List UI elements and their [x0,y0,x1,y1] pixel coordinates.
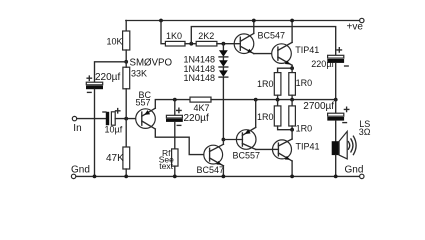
svg-text:Gnd: Gnd [71,165,90,176]
resistor 47K [106,119,130,177]
svg-text:BC557: BC557 [233,150,261,160]
wire SM0VPO node to 220uf [95,62,127,82]
node bias top [222,42,226,46]
resistor 4K7 [190,97,336,113]
svg-text:220µf: 220µf [311,59,334,69]
resistor 1K0 [161,21,196,47]
svg-text:In: In [73,123,81,134]
capacitor C 2700uf output [303,100,349,123]
svg-text:SMØVPO: SMØVPO [130,58,173,69]
wire 220uf bootstrap to output [335,63,337,100]
resistor 33K [123,62,147,119]
svg-text:4K7: 4K7 [194,103,210,113]
svg-text:BC547: BC547 [197,165,225,175]
wire Q6 collector up [291,130,293,139]
resistor 2K2 [196,31,234,46]
capacitor C 10uf input [103,109,123,135]
wire speaker to ground [335,155,337,176]
capacitor C 220uf bootstrap [311,48,348,69]
node output cap junction [334,98,338,102]
node bias bottom [222,138,226,142]
svg-text:10µf: 10µf [105,124,123,134]
svg-text:2K2: 2K2 [198,31,214,41]
capacitor C 220uf feedback [166,100,209,126]
transistor Q1 BC557 input PNP [136,90,156,129]
node 1K0 rail tap [159,19,163,23]
node SM0VPO [124,58,172,69]
node 220uf ground [93,175,97,179]
svg-text:1R0: 1R0 [257,79,274,89]
resistor 1R0 top right [289,68,312,99]
terminal Gnd right [345,164,364,178]
terminal Gnd left [71,165,90,179]
wire Q2 emitter to Q3 base [254,53,278,55]
wire Q2 collector to rail [253,21,255,34]
svg-text:1R0: 1R0 [296,123,313,133]
svg-text:33K: 33K [131,69,147,79]
wire 220uf to ground [94,89,96,176]
terminal +ve [347,18,364,32]
wire 2700uf to speaker [335,121,337,142]
svg-text:557: 557 [136,97,151,107]
diode D2 1N4148 [184,57,228,74]
svg-text:Gnd: Gnd [345,164,364,175]
node output right 1R0 [290,98,294,102]
wire Q6 emitter to ground [291,161,293,176]
svg-text:1R0: 1R0 [257,112,274,122]
resistor 1R0 bottom left [257,100,292,130]
node 47K ground [124,175,128,179]
diode D1 1N4148 [184,44,228,65]
speaker LS [332,119,371,159]
wire Q5 collector up [222,140,224,145]
wire Q3 collector to rail [291,21,293,43]
node base of first BC557 [124,117,128,121]
resistor 10K [107,21,130,62]
wire Q1 emitter to feedback rail [155,100,190,109]
wire bootstrap [191,27,335,56]
wire Q5 emitter to ground [222,166,224,177]
node BC557 emitter on output rail [254,98,258,102]
svg-text:10K: 10K [107,37,123,47]
capacitor C 220uf bias decoupling [86,72,120,92]
svg-text:1N4148: 1N4148 [184,73,216,83]
wire Q4 emitter to output rail [255,100,257,128]
node Q5 emitter ground [222,175,226,179]
svg-text:1R0: 1R0 [296,78,313,88]
svg-text:BC547: BC547 [258,30,286,40]
wire Q3 emitter node [278,65,293,68]
node output left 1R0 [276,98,280,102]
wire bias column down [222,77,224,139]
wire Q4 collector to Q6 base [256,148,273,150]
resistor 1R0 bottom right [289,100,312,134]
svg-text:TIP41: TIP41 [295,45,319,55]
wire Q1 collector down [155,129,209,155]
diode D3 1N4148 [184,67,228,83]
wire top +ve rail [126,20,362,22]
wire 10uf to base node [115,118,142,120]
transistor Q6 TIP41 lower output [272,139,319,161]
node 1K0 2K2 junction [189,42,193,46]
resistor 1R0 top left [257,68,281,99]
node Q6 emitter ground [290,175,294,179]
node feedback tap [173,98,177,102]
transistor Q4 BC557 lower driver [223,127,260,160]
svg-text:+ve: +ve [347,22,364,33]
svg-text:3Ω: 3Ω [359,127,371,137]
svg-text:220µf: 220µf [184,113,209,124]
node Q3 collector rail [290,19,294,23]
terminal In [72,116,81,133]
wire In to 10uf [77,118,106,120]
svg-text:220µf: 220µf [95,72,120,83]
node Q3 emitter [290,66,294,70]
transistor Q3 TIP41 upper output [272,42,320,65]
node lower output join [290,128,294,132]
svg-text:text: text [159,161,173,171]
wire ground rail [76,175,360,177]
svg-text:TIP41: TIP41 [296,142,320,152]
svg-text:1K0: 1K0 [166,31,182,41]
node speaker ground [334,175,338,179]
resistor Rf [159,122,178,176]
svg-text:47K: 47K [106,153,124,164]
node Q2 collector rail [252,19,256,23]
svg-text:2700µf: 2700µf [303,101,334,112]
node Rf ground [173,175,177,179]
transistor Q2 BC547 upper driver [234,30,285,53]
transistor Q5 BC547 second stage [197,144,225,175]
